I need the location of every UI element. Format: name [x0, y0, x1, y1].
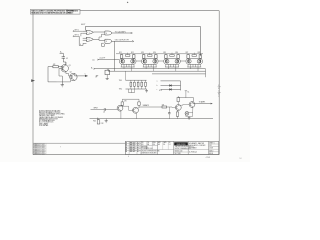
svg-text:B: B	[126, 151, 127, 153]
wire Q2 emitter	[59, 68, 62, 76]
revision strip line	[33, 142, 125, 144]
svg-text:10K: 10K	[162, 104, 165, 106]
svg-text:R40: R40	[93, 121, 96, 123]
wire U1B out	[93, 39, 105, 40]
svg-text:CODE: CODE	[209, 148, 213, 150]
ladder ground	[145, 89, 148, 92]
wire U1A in2	[81, 33, 83, 36]
svg-text:.05: .05	[103, 112, 105, 114]
svg-text:Q1: Q1	[69, 65, 71, 67]
notes text block	[39, 109, 66, 127]
svg-text:SIZE D: SIZE D	[209, 150, 213, 152]
wire U2B output	[112, 40, 134, 42]
resistor R1	[48, 64, 62, 68]
registration speck top	[127, 2, 128, 3]
svg-text:9-6: 9-6	[163, 144, 165, 146]
connector input J1	[73, 30, 83, 32]
sheet border right	[218, 11, 220, 155]
svg-text:B: B	[126, 142, 127, 144]
wire Q1 collector	[65, 62, 67, 65]
svg-text:UNLESS OTHERWISE NOTED: UNLESS OTHERWISE NOTED	[141, 151, 159, 153]
svg-text:1:1: 1:1	[169, 144, 171, 146]
ladder feed	[125, 71, 127, 80]
bus line 1	[95, 68, 206, 70]
divider stage 1 resistors	[119, 52, 135, 59]
divider stage 4 envelope	[186, 58, 203, 64]
wire U1A out	[93, 31, 105, 33]
svg-text:REV B: REV B	[209, 153, 213, 155]
diode D1	[169, 84, 171, 86]
transistor Q24	[189, 102, 195, 108]
svg-text:SHEET 1: SHEET 1	[209, 143, 215, 145]
wire U2A output SA-1	[112, 30, 133, 33]
ladder rails	[119, 80, 147, 91]
transistor Q2	[70, 72, 78, 81]
svg-text:RB: RB	[147, 144, 149, 146]
svg-text:4 7-41: 4 7-41	[206, 157, 211, 159]
transistor Q21	[117, 105, 123, 111]
connector plug P2	[91, 68, 95, 70]
divider stage 2 bus	[143, 64, 157, 67]
svg-text:HK: HK	[158, 144, 160, 146]
svg-text:NO. 76311: NO. 76311	[175, 153, 181, 155]
resistor R41	[97, 119, 100, 124]
bus line 2	[108, 70, 205, 72]
wire Q24 emitter loop	[185, 107, 193, 117]
gate U2B	[105, 39, 112, 43]
wire input drop	[79, 36, 86, 46]
ladder resistor R31	[130, 80, 132, 89]
title block sheet cells	[209, 143, 219, 155]
transistor Q1	[61, 65, 71, 72]
svg-text:1: 1	[218, 96, 219, 98]
wire stage 3 to 4	[180, 60, 185, 62]
wire Q2 output arrow	[75, 73, 88, 76]
wire Q21-Q22	[122, 106, 132, 110]
ladder resistor R32	[133, 80, 135, 89]
wire U2A in2	[99, 34, 105, 39]
wire collector loop	[178, 91, 193, 102]
svg-text:R22: R22	[131, 52, 134, 54]
corner mark connector	[96, 76, 98, 78]
title block revision cells	[125, 141, 141, 154]
ground bus lower	[90, 118, 214, 120]
wire stage 2 to 3	[158, 60, 163, 62]
svg-text:R25: R25	[163, 52, 166, 54]
sheet border top	[80, 10, 220, 12]
ground oscillator	[61, 76, 64, 87]
svg-text:(C) 4 FT: (C) 4 FT	[100, 58, 106, 60]
title block title	[188, 142, 208, 154]
wire U2B in loop	[102, 43, 105, 46]
svg-text:1: 1	[89, 32, 90, 34]
divider stage 2 resistors	[141, 52, 157, 59]
svg-text:2: 2	[89, 39, 90, 41]
label group	[159, 90, 162, 92]
divider stage 4 bus drops	[191, 67, 199, 71]
svg-text:OSC OUTPUT 8 FT: OSC OUTPUT 8 FT	[115, 40, 129, 42]
zone arrow left border	[31, 79, 35, 82]
transistor Q23	[175, 105, 181, 111]
divider Q14a	[187, 59, 191, 64]
transistor Q22	[133, 107, 139, 113]
gate U1B	[83, 37, 94, 41]
divider stage 3 bus drops	[168, 67, 176, 71]
wire Q22 emitter	[135, 113, 137, 119]
ground G2	[105, 119, 108, 123]
svg-text:7-41: 7-41	[239, 158, 242, 160]
resistor R46	[176, 110, 178, 119]
resistor R44	[162, 104, 172, 108]
wire ladder tails	[129, 89, 135, 93]
svg-text:R24: R24	[153, 52, 156, 54]
gate U2A	[105, 31, 112, 35]
divider stage 1 bus	[121, 64, 135, 67]
divider stage 2 bus drops	[146, 67, 154, 71]
svg-text:NOTICE: NOTICE	[68, 13, 74, 15]
svg-text:B: B	[126, 149, 127, 151]
divider B+ rail	[116, 53, 203, 55]
divider stage 3 resistors	[163, 52, 179, 59]
page number	[206, 157, 211, 159]
bus line 3	[152, 73, 206, 75]
svg-text:C: C	[85, 73, 86, 75]
svg-text:.02: .02	[66, 58, 68, 60]
corner mark	[239, 158, 242, 160]
resistor R42	[121, 99, 127, 106]
svg-text:50 V: 50 V	[159, 90, 162, 92]
divider Q13b	[175, 59, 179, 64]
wire drop to divider	[114, 41, 116, 71]
divider stage 3 bus	[165, 64, 179, 67]
svg-text:TR-2: TR-2	[119, 89, 122, 91]
wire Q22 out	[139, 104, 162, 107]
wire Q2 base feed	[57, 80, 71, 82]
ground Q24	[188, 116, 191, 119]
zone marks right border	[218, 85, 221, 98]
title block frame	[125, 141, 218, 154]
svg-text:B+: B+	[188, 92, 190, 94]
gate U1A	[83, 30, 94, 34]
divider stage 4 bus	[187, 64, 201, 67]
svg-text:R27: R27	[186, 52, 189, 54]
power stub	[60, 51, 64, 53]
divider stage 3 envelope	[164, 58, 181, 64]
svg-text:64 FT: 64 FT	[81, 24, 85, 26]
divider Q12a	[143, 59, 147, 64]
resistor R45	[177, 96, 179, 105]
capacitor C1	[62, 53, 68, 65]
resistor R43	[136, 99, 140, 108]
ladder resistor R33	[137, 80, 139, 89]
svg-text:B: B	[126, 145, 127, 147]
divider Q14b	[197, 59, 201, 64]
wire feedback top	[85, 27, 200, 57]
svg-text:Q2: Q2	[70, 72, 72, 74]
svg-text:B+: B+	[60, 51, 62, 53]
divider Q11a	[121, 59, 125, 64]
wire Q21 emitter	[120, 111, 122, 119]
svg-text:2.2K: 2.2K	[101, 123, 104, 125]
divider Q13a	[165, 59, 169, 64]
wire Q23-Q24 base	[179, 104, 189, 107]
wire right vertical tail	[205, 69, 207, 78]
svg-text:B: B	[126, 147, 127, 149]
ladder resistor R34	[141, 80, 143, 89]
thermistor RT1	[185, 112, 189, 116]
revision table	[33, 143, 61, 156]
proprietary notice box	[31, 9, 81, 14]
connector input J2	[73, 35, 79, 37]
wire Q23 base	[172, 106, 176, 108]
divider stage 4 resistors	[186, 52, 202, 59]
divider stage 2 envelope	[142, 58, 159, 64]
divider Q11b	[131, 59, 135, 64]
connector plug P1	[92, 58, 119, 62]
resistor R4	[105, 69, 110, 80]
divider stage 1 envelope	[119, 58, 136, 64]
svg-text:MODEL 4100: MODEL 4100	[175, 151, 183, 153]
capacitor C10	[91, 108, 118, 114]
capacitor C11	[168, 107, 170, 119]
svg-text:B+: B+	[91, 68, 93, 70]
label lower left	[93, 121, 103, 125]
wire group taps	[157, 81, 181, 92]
svg-text:TION AND IS NOT TO BE REPRODUC: TION AND IS NOT TO BE REPRODUCED OR COPI…	[31, 12, 72, 15]
svg-text:R26: R26	[175, 52, 178, 54]
svg-text:R23: R23	[141, 52, 144, 54]
label feedback wire	[81, 24, 85, 26]
title block signature cells	[141, 141, 173, 154]
svg-text:47K: 47K	[124, 101, 126, 103]
divider Q12b	[153, 59, 157, 64]
svg-text:R21: R21	[119, 52, 122, 54]
svg-text:OF 1: OF 1	[209, 145, 212, 147]
svg-text:TR-1: TR-1	[119, 80, 122, 82]
wire output amp	[193, 100, 213, 104]
sheet border bottom	[33, 154, 219, 156]
wire stage 1 to 2	[136, 60, 141, 62]
ladder resistor R35	[145, 80, 147, 89]
diode D2	[169, 88, 171, 90]
wire collector loop 2	[121, 99, 139, 106]
wire Q1-Q2	[66, 72, 71, 76]
junction mark	[97, 118, 99, 120]
wire bus left junction	[107, 69, 109, 72]
divider stage 1 bus drops	[124, 67, 132, 71]
fold tick	[128, 156, 130, 157]
svg-text:R28: R28	[198, 52, 201, 54]
wire left branch	[48, 67, 57, 82]
svg-text:47K: 47K	[53, 64, 56, 66]
svg-text:INPUT: INPUT	[94, 108, 98, 110]
svg-text:WURLITZER: WURLITZER	[176, 144, 186, 146]
title block logo	[173, 142, 194, 155]
svg-text:DIMENSIONS IN INCHES: DIMENSIONS IN INCHES	[141, 152, 156, 154]
sheet border left	[32, 10, 34, 154]
